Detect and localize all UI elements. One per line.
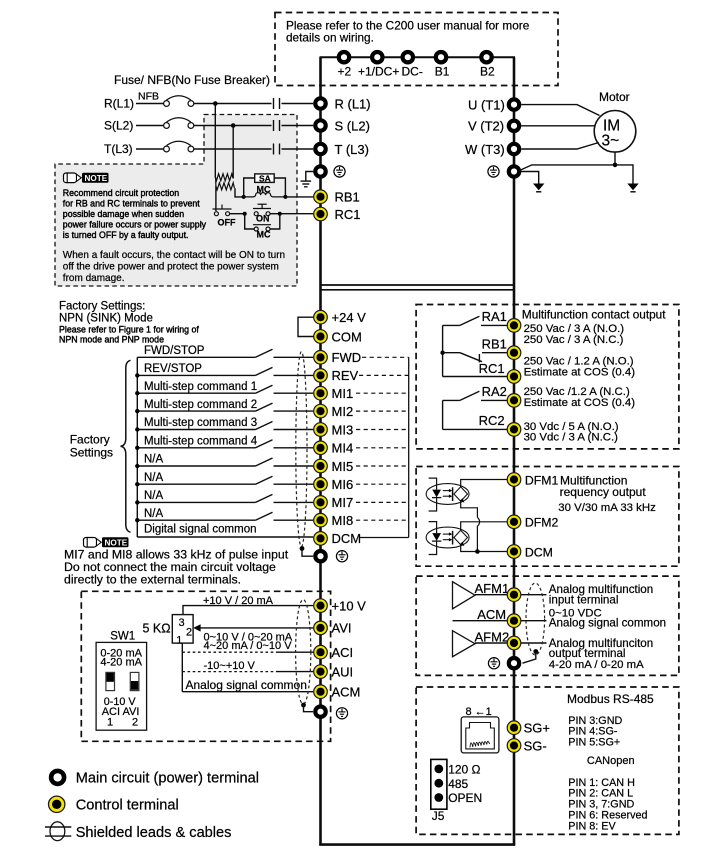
left bus [319,57,322,844]
svg-text:+24 V: +24 V [332,310,367,325]
svg-text:30 Vdc / 3 A (N.C.): 30 Vdc / 3 A (N.C.) [524,432,619,444]
svg-text:Analog signal common: Analog signal common [186,678,307,692]
svg-text:MI2: MI2 [332,404,354,419]
switch MI6 [137,476,313,484]
svg-text:off the drive power and protec: off the drive power and protect the powe… [63,261,279,272]
svg-text:J5: J5 [432,809,445,823]
svg-text:W (T3): W (T3) [465,142,505,157]
svg-text:DCM: DCM [332,531,362,546]
svg-text:NPN (SINK) Mode: NPN (SINK) Mode [59,313,153,325]
PE symbol motor side [488,166,499,177]
relay dashed box [416,305,679,449]
terminal AUI [314,665,328,679]
svg-text:MI5: MI5 [332,459,354,474]
svg-text:DCM: DCM [525,545,553,559]
svg-text:+1/DC+: +1/DC+ [358,65,399,79]
svg-text:CANopen: CANopen [587,755,635,767]
PE symbol input side [334,166,345,177]
legend control terminal [49,796,65,812]
terminal RA2 [507,394,521,408]
svg-text:NPN mode and PNP mode: NPN mode and PNP mode [59,335,164,345]
terminal DFM1 [507,473,521,487]
wire DCM [137,536,313,538]
svg-text:SG-: SG- [524,738,547,753]
MC aux contact branch [245,214,255,229]
switch MI3 [137,422,313,430]
svg-text:Fuse/ NFB(No Fuse Breaker): Fuse/ NFB(No Fuse Breaker) [114,73,270,87]
switch MI4 [137,440,313,448]
dashed leader MI3 [356,429,409,431]
switch MI2 [137,403,313,411]
svg-text:Control terminal: Control terminal [76,797,179,813]
svg-text:OPEN: OPEN [448,791,482,805]
svg-text:FWD: FWD [332,350,362,365]
dashed leader MI5 [356,465,409,467]
shield oval AFM [526,583,545,655]
potentiometer 5K [172,615,193,644]
terminal shield analog [315,707,325,717]
svg-text:RC2: RC2 [479,413,505,428]
svg-text:V (T2): V (T2) [468,119,504,134]
contact RA1 [443,324,460,326]
svg-text:T (L3): T (L3) [335,142,369,157]
PE symbol digital [336,551,347,562]
pot lower leg [181,643,183,692]
wire resistors join [215,177,217,186]
relay rail 1 [442,325,444,376]
earth arrow right [627,184,638,192]
wire hop over DFM2 [477,517,479,551]
wire T to terminal [282,148,314,150]
terminal W(T3) [509,144,519,154]
terminal +1/DC+ [372,52,382,62]
dashed leader FWD [362,356,409,358]
svg-text:AFM1: AFM1 [475,581,510,596]
wire AFM1 [475,594,507,596]
terminal MI8 [314,513,328,527]
terminal MI4 [314,441,328,455]
contact bars S [273,120,275,131]
pushbutton OFF [214,212,218,216]
terminal DC- [403,52,413,62]
svg-text:MI8: MI8 [332,513,354,528]
wire AFM2 [475,642,507,644]
svg-text:B1: B1 [435,65,450,79]
svg-text:MI6: MI6 [332,477,354,492]
svg-text:N/A: N/A [144,490,164,502]
svg-text:RB1: RB1 [335,190,360,205]
svg-text:SA: SA [259,173,271,183]
internal common rail digital [408,357,410,537]
svg-text:REV/STOP: REV/STOP [144,363,202,375]
wire DFM1 emitter to DCM [461,501,478,517]
terminal PE motor [509,166,519,176]
right bus [513,57,516,844]
relay rail 2 [442,400,444,429]
dashed leader MI7 [356,501,409,503]
terminal ACM [314,685,328,699]
svg-text:power failure occurs or power: power failure occurs or power supply [63,220,207,230]
wire DFM2 collector [461,522,508,531]
wire node to RC1 [280,213,313,215]
wire AVI with arrow [200,627,314,629]
wire DCM to rail [360,537,409,539]
svg-text:S(L2): S(L2) [104,119,133,133]
svg-text:U (T1): U (T1) [468,97,505,112]
terminal DFM2 [507,515,521,529]
jumper J5 [431,759,447,809]
svg-text:directly to the external termi: directly to the external terminals. [64,573,241,587]
svg-text:AVI: AVI [332,621,352,636]
svg-text:Shielded leads & cables: Shielded leads & cables [76,825,232,841]
wire PE to earths [520,165,634,184]
terminal +24V [314,310,328,324]
svg-text:RC1: RC1 [335,207,361,222]
switch MI7 [137,494,313,502]
section divider lines [321,284,515,286]
svg-text:+2: +2 [338,65,352,79]
svg-text:B2: B2 [480,65,495,79]
svg-text:PIN 5:SG+: PIN 5:SG+ [568,737,620,749]
PE symbol AFM [488,658,499,669]
svg-text:RB1: RB1 [482,336,507,351]
svg-text:Digital signal common: Digital signal common [144,524,257,536]
node ON right [278,212,282,216]
terminal RA1 [507,319,521,333]
svg-text:MI4: MI4 [332,441,354,456]
wire T to fuse [194,148,272,150]
node DCM join [475,549,480,554]
shield wire digital [302,549,313,557]
brace factory settings [121,360,131,532]
shield wire analog [304,705,314,712]
svg-text:AFM2: AFM2 [475,629,510,644]
svg-text:4-20 mA / 0-20 mA: 4-20 mA / 0-20 mA [549,659,644,671]
svg-text:OFF: OFF [218,217,236,227]
terminal B2 [481,52,491,62]
DFM dashed box [416,467,679,567]
svg-text:N/A: N/A [144,508,164,520]
svg-text:COM: COM [332,329,362,344]
svg-text:1: 1 [107,717,113,729]
svg-text:Estimate at COS (0.4): Estimate at COS (0.4) [524,367,636,379]
svg-text:Estimate at COS (0.4): Estimate at COS (0.4) [524,397,636,409]
switch REV [137,367,313,375]
wire V to motor [521,125,595,127]
terminal REV [314,369,328,383]
svg-text:485: 485 [448,777,468,791]
svg-text:Settings: Settings [70,445,113,459]
svg-text:MI7: MI7 [332,495,354,510]
note/MC gray panel [55,115,297,287]
terminal AVI [314,621,328,635]
svg-text:SG+: SG+ [524,721,550,736]
terminal T(L3) [315,144,325,154]
svg-text:5 KΩ: 5 KΩ [143,622,171,636]
DIP switch ACI [106,672,115,690]
terminal ACM out [507,614,521,628]
resistor upper [215,174,233,181]
breaker NFB pole T [136,148,164,150]
wire left drop to OFF [215,186,217,211]
svg-text:FWD/STOP: FWD/STOP [144,345,205,357]
svg-text:Analog signal common: Analog signal common [549,617,666,630]
svg-text:250 Vac / 3 A (N.O.): 250 Vac / 3 A (N.O.) [524,323,625,335]
terminal AFM2 [507,636,521,650]
svg-text:from damage.: from damage. [63,273,125,284]
svg-text:Recommend circuit protection: Recommend circuit protection [63,188,179,198]
terminal SG- [507,739,521,753]
terminal MI6 [314,477,328,491]
terminal ACI [314,645,328,659]
terminal RB1 [314,190,328,204]
svg-text:NOTE: NOTE [105,539,128,548]
DIP switch AVI [130,672,139,690]
svg-text:Motor: Motor [599,90,630,104]
wire R to terminal [282,103,314,105]
svg-text:Multi-step command 4: Multi-step command 4 [144,436,258,448]
svg-text:RC1: RC1 [479,361,505,376]
node RB1 branch [440,351,444,355]
svg-text:S (L2): S (L2) [335,118,370,133]
terminal RC1 [314,207,328,221]
AFM dashed box [416,576,679,675]
left rail digital [136,357,138,537]
svg-text:4-20 mA: 4-20 mA [100,657,142,669]
amplifier AFM2 [453,631,476,657]
terminal S(L2) [315,120,325,130]
motor ground stem [614,152,616,165]
legend main circuit terminal [51,771,64,784]
motor IM [594,111,636,153]
svg-text:Multi-step command 2: Multi-step command 2 [144,399,257,411]
terminal RC1 out [507,370,521,384]
wire PE to left earth [521,172,539,184]
comm dashed box [416,687,679,834]
wire RC2 [443,428,508,430]
optocoupler DFM1 [426,478,469,511]
svg-text:3: 3 [179,617,185,629]
terminal R(L1) [315,98,325,108]
svg-text:SW1: SW1 [110,631,135,643]
terminal MI7 [314,496,328,510]
dashed leader MI8 [356,519,409,521]
bottom bus [319,843,515,846]
svg-text:Please refer to Figure 1 for w: Please refer to Figure 1 for wiring of [59,325,199,335]
wire AUI dashed [182,671,276,673]
svg-text:Factory: Factory [70,432,110,446]
svg-text:30 V/30 mA 33 kHz: 30 V/30 mA 33 kHz [558,502,656,514]
svg-text:ON: ON [256,213,270,223]
optocoupler DFM2 [426,522,469,555]
dashed leader MI2 [356,410,409,412]
svg-text:Main circuit (power) terminal: Main circuit (power) terminal [76,770,259,786]
svg-text:N/A: N/A [144,454,164,466]
node R drop [213,101,218,106]
shield node AFM [533,649,538,654]
amplifier AFM1 [453,582,476,609]
wire ACI dashed [182,651,276,653]
svg-text:2: 2 [186,627,192,639]
svg-text:possible damage when sudden: possible damage when sudden [63,209,184,219]
dashed leader MI6 [356,483,409,485]
wire +10V [183,606,313,615]
svg-text:MC: MC [257,230,271,240]
switch FWD [137,349,313,357]
terminal U(T1) [509,99,519,109]
contact RB1 [443,352,460,354]
dashed leader REV [359,374,409,376]
wire coil to RB1 [285,196,313,198]
contact RA2 [443,399,460,401]
svg-text:Multifunction contact output: Multifunction contact output [522,307,666,321]
svg-text:1: 1 [176,635,182,647]
ground hook input [306,172,313,182]
wire W to motor [521,143,599,150]
svg-text:3~: 3~ [602,133,620,150]
switch MI8 [137,512,313,520]
svg-text:PIN 8: EV: PIN 8: EV [568,820,616,832]
svg-text:N/A: N/A [144,472,164,484]
svg-text:Factory Settings:: Factory Settings: [59,301,145,313]
terminal COM [314,330,328,344]
svg-text:8 ←1: 8 ←1 [466,706,492,718]
svg-text:+10 V / 20 mA: +10 V / 20 mA [203,595,274,607]
terminal RB1 out [507,346,521,360]
svg-text:MI1: MI1 [332,386,354,401]
wire ACM right [453,620,508,622]
terminal MI2 [314,404,328,418]
analog dashed box [81,591,330,741]
svg-text:R (L1): R (L1) [335,96,371,111]
svg-text:2: 2 [132,717,138,729]
top bus [320,56,516,58]
terminal DCM out [507,545,521,559]
node motor earth [613,163,618,168]
terminal PE input [315,166,325,176]
svg-text:Multi-step command 1: Multi-step command 1 [144,381,257,393]
svg-text:250 Vac / 3 A (N.C.): 250 Vac / 3 A (N.C.) [524,334,624,346]
breaker NFB pole S [136,125,164,127]
svg-text:DFM1: DFM1 [525,473,559,487]
wire S to fuse [194,125,272,127]
wire OFF to node [230,213,245,215]
terminal DCM [314,532,328,546]
svg-text:MI3: MI3 [332,422,354,437]
node MC coil right [283,195,287,199]
wire DFM1 collector [461,480,508,487]
svg-text:R(L1): R(L1) [104,97,134,111]
svg-text:REV: REV [332,368,359,383]
contact bars R [273,98,275,109]
terminal shield AFM [509,658,519,668]
terminal MI1 [314,386,328,400]
top dashed box [275,13,558,86]
pushbutton ON [254,212,258,216]
switch MI1 [137,385,313,393]
terminal RC2 [507,423,521,437]
svg-text:NFB: NFB [138,91,159,103]
shield wire AFM [523,652,536,664]
wire R to fuse [194,103,272,105]
wire RC1 [443,376,508,378]
shield oval analog [296,600,311,705]
wire resistor to coil node [235,188,244,197]
svg-text:NOTE: NOTE [85,174,108,183]
svg-text:AUI: AUI [332,664,354,679]
terminal shield digital [315,551,325,561]
terminal V(T2) [509,121,519,131]
wire 24V-COM bracket [298,317,313,336]
NOTE icon 2 [84,537,129,547]
NOTE icon 1 [64,173,109,183]
svg-text:Multi-step command 3: Multi-step command 3 [144,417,257,429]
wire S drop [232,126,234,179]
shield node digital [300,546,305,551]
svg-text:ACI: ACI [332,645,354,660]
svg-text:RA1: RA1 [482,309,507,324]
svg-text:RA2: RA2 [482,384,507,399]
svg-text:DFM2: DFM2 [525,516,559,530]
SA surge absorber branch [244,178,255,197]
terminal FWD [314,351,328,365]
contact bars T [273,144,275,155]
dashed leader MI1 [356,392,409,394]
svg-text:-10~+10 V: -10~+10 V [204,660,256,672]
node S drop [231,123,236,128]
terminal SG+ [507,721,521,735]
PE symbol analog [336,708,347,719]
wire R drop [214,104,216,178]
terminal AFM1 [507,588,521,602]
terminal +10V [314,599,328,613]
svg-text:+10 V: +10 V [332,598,367,613]
svg-text:ACM: ACM [477,607,506,622]
svg-text:When a fault occurs, the conta: When a fault occurs, the contact will be… [63,250,285,261]
terminal MI5 [314,459,328,473]
shield node analog [301,703,306,708]
switch MI5 [137,458,313,466]
svg-text:is turned OFF by a faulty outp: is turned OFF by a faulty output. [63,230,189,240]
terminal B1 [436,52,446,62]
svg-text:details on wiring.: details on wiring. [286,31,374,45]
legend shield symbol [50,822,65,841]
wire ON to node right [270,213,280,215]
svg-text:for RB and RC terminals to pre: for RB and RC terminals to prevent [63,199,200,209]
node MC coil left [242,195,246,199]
svg-text:input terminal: input terminal [549,594,619,607]
svg-text:4~20 mA / 0~10 V: 4~20 mA / 0~10 V [204,640,293,652]
terminal +2 [339,52,349,62]
terminal MI3 [314,423,328,437]
svg-text:120 Ω: 120 Ω [448,763,480,777]
svg-text:requency output: requency output [560,485,647,499]
wire U to motor [521,105,599,116]
resistor lower [216,183,235,190]
dashed leader MI4 [356,447,409,449]
shield oval digital [296,352,307,547]
svg-text:T(L3): T(L3) [104,142,133,156]
earth arrow left [533,184,544,192]
wire ACM [182,691,313,693]
wire DFM2 emitter [461,545,508,552]
svg-text:Modbus RS-485: Modbus RS-485 [567,692,654,706]
svg-text:ACM: ACM [332,685,361,700]
wire S to terminal [282,125,314,127]
node ON left [243,212,247,216]
svg-text:DC-: DC- [402,65,423,79]
